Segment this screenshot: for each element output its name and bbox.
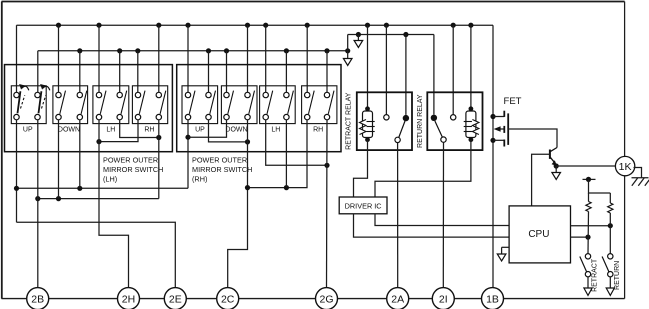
- wire DOWN-right column down to lineA: [79, 120, 81, 189]
- wire UP-right column down to 2B: [37, 120, 39, 288]
- transistor Q1 base bar: [549, 150, 551, 159]
- switch DOWN left (RH block): [224, 91, 234, 120]
- wire return coil to driver IC: [375, 140, 471, 197]
- switch RETRACT (manual): [580, 254, 599, 296]
- retract relay NC contact: [384, 115, 389, 120]
- node junction line187 LH-right: [284, 185, 289, 190]
- CPU left pin arrow connector: [497, 247, 509, 261]
- svg-text:1B: 1B: [486, 294, 499, 306]
- wire DOWN-left column down to lineB: [58, 120, 60, 199]
- svg-text:2E: 2E: [169, 294, 182, 306]
- UP switch box (LH block): [11, 86, 46, 134]
- wire UP-left RH column down to lineA: [187, 120, 189, 189]
- label FET: [504, 96, 522, 107]
- svg-text:RETRACT RELAY: RETRACT RELAY: [345, 92, 352, 150]
- svg-text:MIRROR SWITCH: MIRROR SWITCH: [103, 165, 163, 174]
- svg-text:1K: 1K: [619, 161, 632, 173]
- wire lineB UP-right/DOWN-left common: [38, 198, 159, 200]
- wire bus1 left drop to UP-left LH: [16, 25, 18, 92]
- wire RH-right column down to lineB corner: [158, 120, 160, 199]
- svg-text:2C: 2C: [221, 294, 235, 306]
- svg-text:LH: LH: [271, 127, 280, 134]
- LH switch box (LH block): [93, 86, 129, 134]
- svg-text:FET: FET: [504, 96, 522, 107]
- transistor Q1 emitter with arrow: [550, 157, 557, 166]
- switch LH right (RH block): [284, 91, 294, 120]
- svg-text:RETURN: RETURN: [614, 261, 621, 290]
- arrow connector below emitter: [552, 166, 561, 180]
- wire driver out1 to CPU: [354, 214, 510, 237]
- svg-text:POWER OUTER: POWER OUTER: [192, 155, 247, 164]
- wire lineA UP-left/DOWN-right common: [17, 187, 189, 189]
- svg-text:RH: RH: [144, 127, 154, 134]
- wire bus1 drop to DOWN-left LH + junction: [56, 23, 61, 93]
- label POWER OUTER MIRROR SWITCH (LH): [103, 155, 163, 183]
- svg-text:2A: 2A: [391, 294, 404, 306]
- wire bus2 drop to DOWN-left RH + junction: [224, 48, 229, 92]
- UP switch box (RH block): [182, 86, 218, 134]
- wire line3 drop to retract NO contact + junction: [403, 32, 408, 115]
- wire bus1 drop to LH-left LH + junction: [96, 23, 101, 93]
- wire FET gate to transistor collector: [508, 129, 557, 148]
- svg-text:2G: 2G: [319, 294, 333, 306]
- retract relay NO contact (closed): [403, 115, 409, 121]
- svg-text:DRIVER IC: DRIVER IC: [345, 201, 382, 210]
- return relay NC contact (closed): [431, 115, 437, 121]
- wire ground-bus left: [1, 2, 3, 299]
- wire line3 horizontal: [348, 34, 434, 36]
- node junction DOWN-right RH link: [245, 139, 250, 144]
- FET gate plate: [507, 113, 509, 144]
- driver IC box: [339, 197, 387, 214]
- wire bus2 horizontal: [38, 50, 348, 52]
- wire UP-left column down (through lineA) to lineC: [16, 120, 18, 223]
- retract relay common contact + arm: [395, 121, 405, 143]
- node emitter junction: [554, 163, 559, 168]
- wire emitter to 1K: [556, 165, 615, 167]
- return relay common contact + arm: [435, 121, 446, 142]
- node junction lineB DOWN-left: [56, 196, 61, 201]
- wire bus2 drop to RH-left LH + junction: [135, 48, 140, 92]
- wire DOWN-left RH link: [188, 120, 227, 137]
- wire bus2 drop to RH-right RH + junction: [324, 48, 329, 92]
- node junction lineA left: [14, 186, 19, 191]
- DOWN switch box (RH block): [221, 86, 257, 134]
- RH switch box (LH block): [132, 86, 167, 134]
- wire ground-bus right upper (to 1K): [624, 2, 626, 157]
- wire bus2 drop to LH-right RH + junction: [284, 48, 289, 92]
- wire CPU right pin to retract channel: [571, 236, 589, 238]
- switch RH right (RH block): [324, 91, 334, 120]
- wire bus1 drop to return NO contact + junction: [451, 23, 456, 115]
- wire DOWN-right RH column down then to 2C: [228, 120, 248, 288]
- transistor Q1 collector: [550, 148, 557, 152]
- wire FET drain riser / 1B riser: [492, 25, 494, 288]
- switch RH right (LH block): [156, 91, 166, 120]
- node junction RH-right/link: [156, 135, 161, 140]
- return relay NO contact: [451, 115, 456, 120]
- svg-text:RETRACT: RETRACT: [592, 258, 599, 292]
- wire ground-bus top: [2, 1, 625, 3]
- retract relay box: [357, 92, 412, 150]
- wire return common down to 2I: [442, 142, 444, 287]
- wire bus1 drop to UP-left RH + junction: [185, 23, 190, 93]
- switch RH left (LH block): [135, 91, 145, 120]
- wire bus1 drop to retract coil + junction: [365, 23, 370, 109]
- wire CPU right pin to return channel: [571, 225, 611, 227]
- DOWN switch box (LH block): [53, 86, 88, 134]
- node FET drain junction: [490, 114, 495, 119]
- connector 2B: [27, 288, 49, 309]
- return relay coil: [464, 106, 479, 142]
- svg-text:2B: 2B: [31, 294, 44, 306]
- label RETRACT RELAY: [345, 92, 352, 150]
- wire bus1 horizontal: [17, 24, 494, 26]
- switch UP left (RH block): [185, 91, 195, 120]
- wire ground-bus right lower (from 1K): [624, 176, 626, 299]
- switch DOWN right (LH block): [77, 91, 87, 120]
- svg-text:2I: 2I: [439, 294, 448, 306]
- wire ground-bus bottom: [2, 298, 625, 300]
- svg-text:POWER OUTER: POWER OUTER: [103, 155, 158, 164]
- switch UP right (RH block): [206, 91, 216, 120]
- wire LH-left RH link: [266, 120, 327, 166]
- wire bus1 drop to return coil + junction: [468, 23, 473, 110]
- wire riser bus2-to-line3: [347, 35, 349, 51]
- node junction retract channel: [585, 235, 590, 240]
- power outer mirror switch (LH) box: [5, 65, 173, 152]
- wire bus2 drop to DOWN-right LH + junction: [77, 48, 82, 92]
- switch UP left (LH block): [14, 84, 29, 120]
- svg-text:DOWN: DOWN: [58, 127, 80, 134]
- switch LH left (RH block): [263, 91, 273, 120]
- wire retract coil to driver IC: [354, 140, 368, 197]
- switch DOWN right (RH block): [245, 91, 255, 120]
- svg-text:MIRROR SWITCH: MIRROR SWITCH: [192, 165, 252, 174]
- return relay box: [427, 92, 482, 150]
- node line3 junction + arrow connector: [354, 32, 363, 48]
- FET channel segments: [503, 111, 505, 147]
- connector 2H: [118, 288, 140, 309]
- svg-text:(RH): (RH): [192, 174, 207, 183]
- retract relay coil: [360, 106, 375, 142]
- wire retract common down to 2A: [397, 143, 399, 288]
- resistor R-retract: [586, 193, 591, 254]
- node junction lineB UP-right: [35, 196, 40, 201]
- node junction lineA DOWN-right: [77, 186, 82, 191]
- wire line y=187.6 RH block: [248, 120, 308, 188]
- switch RH left (RH block): [305, 91, 315, 120]
- connector 1K: [615, 156, 634, 175]
- wire bus1 drop to retract NC contact + junction: [384, 23, 389, 115]
- wire driver out2 to CPU: [375, 214, 509, 226]
- switch DOWN left (LH block): [56, 91, 66, 120]
- node junction return channel: [608, 223, 613, 228]
- svg-text:2H: 2H: [122, 294, 135, 306]
- wire bus1 drop to LH-left RH + junction: [263, 23, 268, 93]
- connector 1B: [482, 288, 504, 309]
- LH switch box (RH block): [260, 86, 296, 134]
- wire FET drain stub: [493, 116, 504, 118]
- wire UP-right RH link: [209, 120, 248, 142]
- wire bus1 drop to RH-left RH + junction: [305, 23, 310, 93]
- wire bus1 drop to RH-right LH + junction: [156, 23, 161, 93]
- switch RETURN (manual): [602, 254, 621, 296]
- supply bar node: [583, 177, 596, 182]
- wire bus2 drop to LH-right LH + junction: [117, 48, 122, 92]
- wire LH-left column down then to 2H: [99, 120, 129, 288]
- svg-text:RH: RH: [313, 127, 323, 134]
- wire line3 drop to return NC contact: [433, 35, 435, 115]
- svg-text:LH: LH: [106, 127, 115, 134]
- connector 2I: [432, 288, 454, 309]
- node junction UP-left RH link: [185, 135, 190, 140]
- svg-text:(LH): (LH): [103, 174, 117, 183]
- connector 2E: [164, 288, 186, 309]
- connector 2G: [316, 288, 338, 309]
- connector 2C: [217, 288, 239, 309]
- wire LH-right to RH-right link (LH block): [120, 120, 159, 138]
- wire bus2 left drop to UP-right LH: [37, 51, 39, 93]
- wire FET source stub: [493, 139, 504, 141]
- chassis ground at 1K: [632, 168, 649, 186]
- node junction RH-right RH link: [324, 163, 329, 168]
- node FET source junction: [490, 138, 495, 143]
- node junction line187 left: [245, 185, 250, 190]
- svg-text:UP: UP: [23, 127, 33, 134]
- RH switch box (RH block): [302, 86, 337, 134]
- FET body lead with arrow: [494, 126, 505, 131]
- node bus2 right end junction: [345, 48, 350, 53]
- switch UP right (LH block): [35, 84, 50, 120]
- power outer mirror switch (RH) box: [177, 65, 341, 152]
- wire supply to resistor split: [589, 179, 611, 193]
- wire RH-right RH column down to 2G: [326, 120, 329, 288]
- wire LH-right RH column down: [285, 120, 287, 188]
- svg-text:CPU: CPU: [528, 229, 549, 240]
- wire lineC to 2E: [17, 222, 176, 287]
- wire RH-left to LH-left link (LH block): [99, 120, 138, 142]
- label POWER OUTER MIRROR SWITCH (RH): [192, 155, 252, 183]
- switch LH left (LH block): [96, 91, 106, 120]
- CPU box: [509, 206, 570, 263]
- wire base to CPU: [532, 154, 550, 206]
- connector 2A: [387, 288, 409, 309]
- wire bus2 drop to UP-right RH + junction: [206, 48, 211, 92]
- wire bus1 drop to DOWN-right RH + junction: [245, 23, 250, 93]
- node junction LH-left/link: [96, 139, 101, 144]
- svg-text:RETURN RELAY: RETURN RELAY: [417, 94, 424, 148]
- resistor R-return: [608, 193, 613, 254]
- arrow connector below bus2 end: [343, 51, 352, 66]
- switch LH right (LH block): [117, 91, 127, 120]
- svg-text:UP: UP: [195, 127, 205, 134]
- label RETURN RELAY: [417, 94, 424, 148]
- svg-text:DOWN: DOWN: [225, 127, 247, 134]
